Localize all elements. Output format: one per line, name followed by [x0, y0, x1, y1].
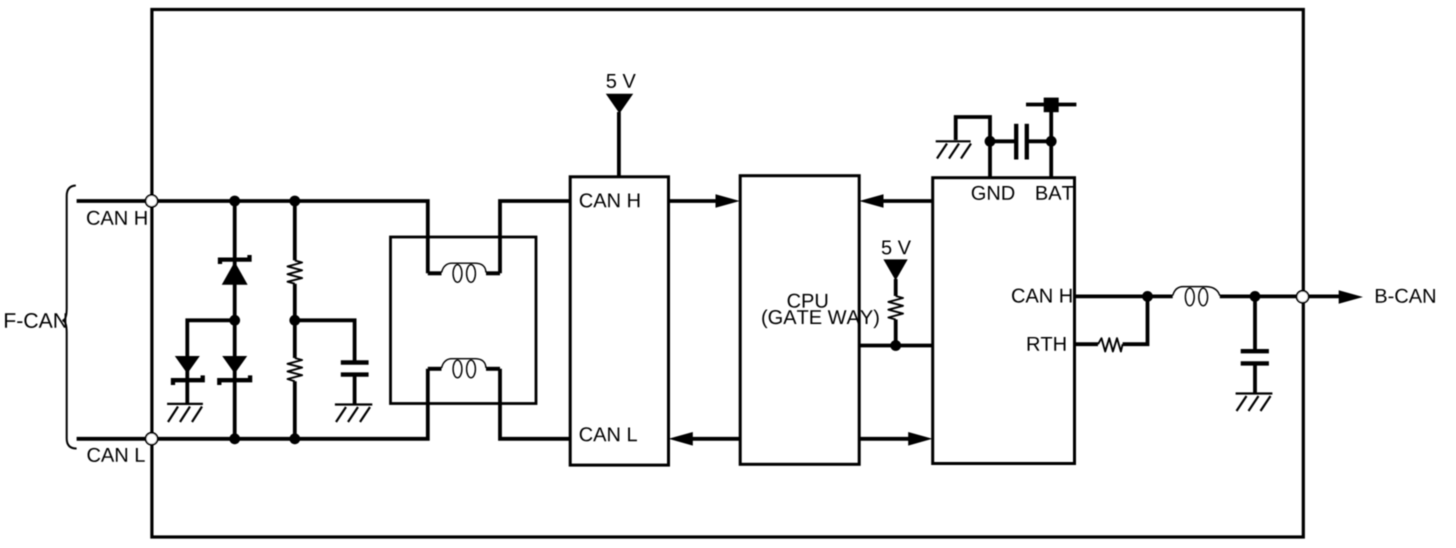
5V supply triangle above transceiver — [606, 94, 633, 114]
resistor R1 zigzag — [288, 260, 303, 283]
F-CAN bracket — [62, 186, 76, 449]
terminal circle CAN L left — [146, 433, 158, 445]
ground under D2 — [167, 404, 203, 422]
capacitor C2 plates — [1014, 124, 1018, 160]
capacitor C3 plates — [1241, 349, 1269, 353]
transceiver block U1 — [570, 177, 668, 465]
wire choke top right to transceiver — [500, 201, 570, 273]
wire R1 to mid junction — [293, 284, 297, 358]
node CAN H dot 1 — [229, 196, 240, 207]
ground under C1 — [335, 405, 372, 423]
node mid resistor junction — [289, 315, 300, 326]
resistor R1 branch — [293, 201, 297, 260]
CPU block — [740, 176, 859, 465]
node CAN H dot 2 — [289, 196, 300, 207]
choke enclosure box — [391, 237, 537, 404]
terminal circle B-CAN right — [1297, 291, 1309, 303]
zener diode D1 branch wire — [233, 201, 237, 320]
label CAN H right block — [1012, 289, 1072, 303]
wire arrow right block to CPU (top) — [877, 199, 933, 203]
label F-CAN — [5, 313, 66, 328]
wire CPU to right block (mid) — [859, 344, 932, 348]
wire C2 to BAT junction — [1029, 139, 1052, 143]
wire R3 to junction — [894, 320, 898, 346]
label CAN L left — [88, 448, 145, 462]
wire arrow transceiver to CPU (CAN H) — [669, 199, 723, 203]
outer border frame — [152, 10, 1303, 538]
label B-CAN — [1376, 289, 1435, 303]
zener D2 triangle — [175, 356, 200, 374]
wire C1 to ground — [353, 376, 357, 405]
label CAN L transceiver — [580, 427, 637, 441]
label 5V transceiver — [607, 74, 636, 88]
arrowhead B-CAN — [1339, 290, 1363, 304]
wire GND junction to capacitor C2 — [990, 139, 1015, 143]
wire junction to capacitor C3 — [1253, 296, 1257, 349]
right block (CAN unit) — [933, 178, 1075, 464]
label 5V mid — [882, 241, 911, 255]
resistor R4 zigzag — [1098, 338, 1123, 351]
label CPU — [788, 294, 828, 308]
choke L1 bottom winding — [428, 359, 500, 378]
node CAN L dot 2 — [289, 433, 300, 444]
node BAT junction — [1046, 136, 1057, 147]
zener D1 triangle — [223, 263, 247, 284]
node R3 junction — [890, 340, 901, 351]
GND pin wire — [956, 117, 990, 178]
label RTH — [1028, 337, 1066, 351]
5V supply triangle mid — [883, 259, 907, 280]
RTH pin wire — [1075, 342, 1099, 346]
inductor L2 — [1173, 287, 1220, 306]
wire 5V to resistor R3 — [894, 279, 898, 296]
wire CAN H left run — [77, 201, 428, 273]
BAT pin wire — [1049, 105, 1053, 178]
label GND — [972, 186, 1014, 200]
zener D1 bar — [220, 255, 250, 264]
label GATE WAY — [762, 310, 878, 329]
battery bus line — [1026, 103, 1076, 107]
terminal circle CAN H left — [146, 195, 158, 207]
resistor R3 zigzag — [888, 296, 903, 320]
zener D2 bar — [173, 375, 203, 385]
wire junction to capacitor C1 — [295, 320, 355, 360]
wire arrow CPU to right block (bottom) — [859, 437, 915, 441]
label CAN H left — [87, 211, 147, 225]
resistor R2 zigzag — [288, 358, 303, 381]
wire R4 to CAN H junction — [1123, 296, 1148, 344]
wire CAN L left run — [77, 369, 428, 439]
wire choke bottom right to transceiver — [500, 369, 570, 439]
wire L2 to border — [1220, 294, 1340, 298]
wire C3 to ground — [1253, 365, 1257, 394]
wire D3 to CAN L — [233, 320, 237, 439]
zener D3 triangle — [222, 356, 247, 374]
wire 5V to transceiver — [617, 112, 621, 177]
ground at GND pin — [936, 141, 971, 158]
node CAN L dot 1 — [229, 433, 240, 444]
choke L1 top winding — [428, 263, 500, 282]
CAN H pin wire — [1075, 294, 1148, 298]
battery square terminal — [1044, 98, 1059, 113]
label CAN H transceiver — [580, 193, 640, 207]
node GND junction — [985, 136, 996, 147]
node L2 out junction — [1250, 291, 1261, 302]
node CAN H junction — [1142, 291, 1153, 302]
wire R2 to CAN L — [293, 381, 297, 439]
capacitor C1 plates — [341, 360, 369, 364]
label BAT — [1037, 186, 1074, 200]
node mid zener junction — [229, 315, 240, 326]
ground under C3 — [1236, 394, 1273, 412]
zener D3 bar — [219, 375, 250, 385]
wire CAN H junction to inductor L2 — [1148, 294, 1173, 298]
wire junction to left diode — [187, 320, 234, 404]
wire arrow CPU to transceiver (CAN L) — [686, 437, 740, 441]
